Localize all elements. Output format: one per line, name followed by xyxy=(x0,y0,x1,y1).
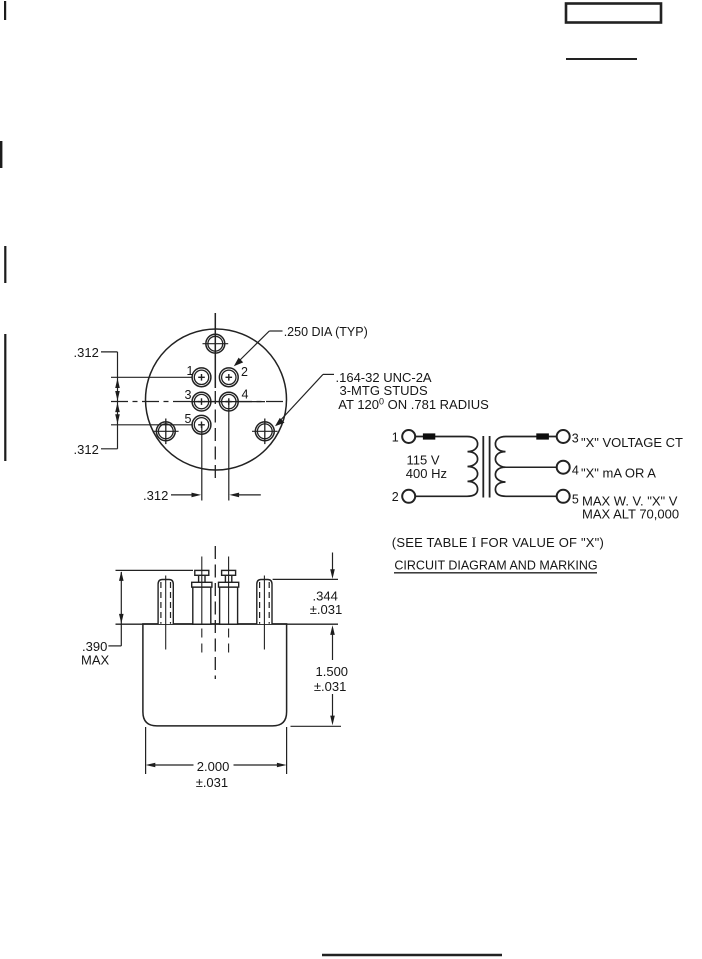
secondary center tap wire xyxy=(506,466,558,468)
svg-text:4: 4 xyxy=(242,387,249,401)
change bar 4 (left margin) xyxy=(4,334,6,461)
ext line below pin 5 xyxy=(201,425,203,501)
left leader + arrow xyxy=(171,494,196,496)
polarity mark primary (black band) xyxy=(423,433,435,439)
dimension .312 upper-left bracket xyxy=(101,352,118,449)
svg-text:±.031: ±.031 xyxy=(314,679,346,694)
vertical centerline (dashed part) xyxy=(214,391,216,481)
terminal 3 xyxy=(557,430,570,443)
terminal-top extension line xyxy=(116,569,194,571)
svg-text:3: 3 xyxy=(185,388,192,402)
terminal 1 xyxy=(402,430,415,443)
stud-top extension line xyxy=(273,578,338,580)
svg-text:400 Hz: 400 Hz xyxy=(406,466,447,481)
pin 3 xyxy=(192,392,211,411)
svg-text:.312: .312 xyxy=(74,442,99,457)
leader 3-MTG STUDS xyxy=(323,373,334,375)
left stud centerline xyxy=(165,576,167,650)
svg-text:.312: .312 xyxy=(74,345,99,360)
mounting stud (top) xyxy=(203,334,229,353)
terminal post A centerline xyxy=(201,557,203,625)
svg-text:1: 1 xyxy=(187,364,194,378)
dimension 2.000 (bottom) xyxy=(145,727,147,774)
svg-text:"X" VOLTAGE CT: "X" VOLTAGE CT xyxy=(581,435,683,450)
secondary winding with leads xyxy=(495,437,557,497)
case top line with extensions xyxy=(116,623,339,625)
leader .250 DIA xyxy=(269,330,282,332)
bottom page rule xyxy=(322,954,502,957)
svg-text:(SEE TABLE I FOR VALUE OF "X"): (SEE TABLE I FOR VALUE OF "X") xyxy=(392,535,604,551)
dimension .344 (right, arrow from above) xyxy=(332,553,334,571)
mounting stud (bottom left) xyxy=(153,419,179,445)
terminal 5 xyxy=(557,490,570,503)
svg-text:MAX ALT 70,000: MAX ALT 70,000 xyxy=(582,507,679,522)
case bottom extension line xyxy=(291,725,342,727)
right stud (side view) xyxy=(257,580,272,625)
change bar 1 (left margin) xyxy=(4,1,6,20)
svg-text:±.031: ±.031 xyxy=(310,602,342,617)
polarity mark secondary (black band) xyxy=(536,433,549,439)
svg-text:MAX: MAX xyxy=(81,653,110,668)
terminal post B (side view) xyxy=(219,570,239,624)
dimension .390 MAX (left) xyxy=(120,572,122,646)
right arrow + tail xyxy=(229,493,239,498)
svg-text:.312: .312 xyxy=(143,488,168,503)
vertical centerline (solid part) xyxy=(214,313,216,388)
svg-text:±.031: ±.031 xyxy=(196,775,228,790)
terminal post A (side view) xyxy=(192,570,212,624)
change bar 3 (left margin) xyxy=(4,246,6,283)
pin 4 xyxy=(219,392,238,411)
pin 5 xyxy=(192,415,211,434)
primary winding with leads xyxy=(415,437,478,497)
terminal 2 xyxy=(402,490,415,503)
row-1 extension line xyxy=(111,376,192,378)
svg-text:4: 4 xyxy=(572,463,579,477)
svg-text:5: 5 xyxy=(185,412,192,426)
short rule under revision box xyxy=(566,58,637,60)
case body xyxy=(143,624,287,726)
change bar 2 (left margin) xyxy=(0,141,2,168)
pin 2 xyxy=(219,368,238,387)
case outline circle xyxy=(146,329,287,470)
terminal post B centerline xyxy=(228,557,230,625)
ext line below pin 4 xyxy=(228,402,230,501)
horizontal centerline (dash-dot) xyxy=(111,401,287,403)
mounting stud (bottom right) xyxy=(252,419,278,445)
dimension 1.500 (right) xyxy=(330,625,335,635)
svg-text:1.500: 1.500 xyxy=(316,664,349,679)
pin 1 xyxy=(192,368,211,387)
svg-text:1: 1 xyxy=(392,430,399,444)
svg-text:2: 2 xyxy=(392,490,399,504)
svg-text:CIRCUIT DIAGRAM AND MARKING: CIRCUIT DIAGRAM AND MARKING xyxy=(394,559,597,573)
svg-text:2.000: 2.000 xyxy=(197,759,230,774)
central axis centerline (dashed) xyxy=(214,546,216,679)
svg-text:.250 DIA (TYP): .250 DIA (TYP) xyxy=(284,325,368,339)
core lines xyxy=(482,436,484,498)
dim arrows between pin rows xyxy=(115,378,120,424)
left stud (side view) xyxy=(158,580,173,625)
svg-text:5: 5 xyxy=(572,492,579,506)
terminal 4 xyxy=(557,461,570,474)
svg-text:3: 3 xyxy=(572,431,579,445)
row-5 extension line xyxy=(111,424,192,426)
svg-text:AT 1200 ON .781 RADIUS: AT 1200 ON .781 RADIUS xyxy=(338,397,489,412)
svg-text:2: 2 xyxy=(241,365,248,379)
right stud centerline xyxy=(263,576,265,650)
svg-text:"X" mA OR A: "X" mA OR A xyxy=(581,466,656,481)
revision box (top right) xyxy=(566,4,661,23)
